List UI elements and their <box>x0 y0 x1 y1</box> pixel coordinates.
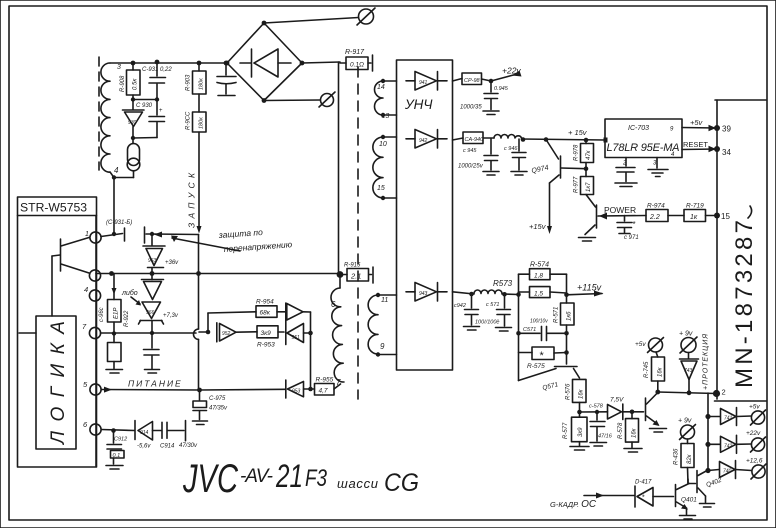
svg-text:47к: 47к <box>586 149 592 160</box>
svg-text:100/10v: 100/10v <box>530 319 548 325</box>
node <box>502 292 507 297</box>
wire output bus <box>707 393 709 471</box>
svg-text:-AV-: -AV- <box>240 466 273 487</box>
capacitor C-910 <box>217 65 236 96</box>
wire 115 rail <box>453 292 475 294</box>
IC STR-W5753 <box>18 197 97 467</box>
thyristor D-951 <box>277 303 311 345</box>
wire PITANIE row <box>102 379 200 393</box>
svg-text:С-975: С-975 <box>209 396 226 402</box>
svg-text:39: 39 <box>722 125 731 134</box>
svg-text:R-974: R-974 <box>647 203 665 210</box>
node <box>584 166 589 171</box>
svg-text:R-955: R-955 <box>316 377 334 384</box>
svg-text:*: * <box>633 220 636 229</box>
capacitor C-971 <box>617 216 639 242</box>
wire <box>133 99 157 101</box>
text G-KADR <box>550 493 634 511</box>
svg-text:R-577: R-577 <box>563 422 569 439</box>
zener D-743 <box>680 359 699 393</box>
node <box>131 61 136 66</box>
svg-text:R-977: R-977 <box>574 176 580 193</box>
svg-text:10: 10 <box>379 141 387 148</box>
node <box>516 292 521 297</box>
wire protection row <box>658 392 716 394</box>
svg-text:0,22: 0,22 <box>160 67 172 73</box>
transistor Q-POWER <box>579 205 647 241</box>
wire winding4 down <box>110 172 114 178</box>
diode D-417 <box>635 480 674 508</box>
capacitor C-912 <box>106 431 127 470</box>
svg-text:R-978: R-978 <box>574 144 580 161</box>
svg-text:G-КАДР. ОС: G-КАДР. ОС <box>550 499 597 510</box>
svg-text:3к9: 3к9 <box>578 427 584 437</box>
svg-text:+ 15v: + 15v <box>568 128 588 137</box>
diode D-952 <box>217 323 257 342</box>
title JVC chassis <box>182 457 419 501</box>
diode D-942 <box>406 130 447 149</box>
capacitor C-945b <box>458 139 499 176</box>
svg-text:+15v: +15v <box>529 222 547 231</box>
wire with arrow <box>152 232 199 273</box>
annotation libo <box>121 289 141 306</box>
node <box>469 292 474 297</box>
svg-text:R573: R573 <box>493 279 513 288</box>
zener D-578 <box>608 397 633 420</box>
svg-text:100//100ё: 100//100ё <box>475 320 499 326</box>
svg-text:1000/35: 1000/35 <box>460 105 482 111</box>
svg-text:+5v: +5v <box>635 341 646 348</box>
resistor R-903 <box>186 63 207 94</box>
node <box>196 271 201 276</box>
node pin39 <box>714 125 731 134</box>
transistor Q-402 <box>688 470 723 507</box>
wire bridge top to J1 <box>264 18 359 24</box>
svg-text:R-917: R-917 <box>345 49 365 56</box>
svg-text:ПИТАНИЕ: ПИТАНИЕ <box>128 379 183 389</box>
node <box>564 331 569 336</box>
terminal +9v upper <box>679 331 697 359</box>
resistor R-575 <box>519 347 569 370</box>
svg-text:C571: C571 <box>523 327 536 333</box>
svg-text:11: 11 <box>381 297 388 304</box>
diode D-742 <box>708 435 752 453</box>
terminal +5v out <box>749 404 766 426</box>
transformer primary winding 3-4 <box>101 63 121 175</box>
node bridge right <box>300 61 305 66</box>
inductor L-940 <box>494 135 522 139</box>
node <box>150 271 155 276</box>
zener D-930 <box>123 100 153 139</box>
node <box>705 442 710 447</box>
svg-text:742: 742 <box>724 443 733 449</box>
svg-text:R-578: R-578 <box>618 422 624 439</box>
resistor R-978 <box>574 140 594 163</box>
terminal +12v out <box>746 458 766 480</box>
diode D-953 <box>200 380 311 398</box>
svg-text:c 971: c 971 <box>624 235 639 241</box>
svg-text:C 930: C 930 <box>136 103 153 109</box>
wire bridge right to bus <box>302 62 340 63</box>
transistor internal <box>52 238 89 317</box>
svg-text:CA-940: CA-940 <box>465 137 485 143</box>
svg-text:68κ: 68κ <box>260 310 271 317</box>
resistor R-917 <box>340 49 373 71</box>
resistor R-911 <box>106 334 123 374</box>
resistor R-578 <box>618 412 642 452</box>
pin 1 <box>85 231 101 243</box>
wire main HV bus <box>338 62 340 273</box>
resistor R-577 <box>563 412 589 450</box>
svg-text:2.1: 2.1 <box>350 272 361 281</box>
node <box>155 97 159 101</box>
zener D-965 <box>142 276 164 300</box>
diode D-941 <box>406 72 447 91</box>
node <box>155 60 160 65</box>
svg-text:951: 951 <box>292 335 301 341</box>
svg-text:R-574: R-574 <box>530 262 549 269</box>
svg-text:180κ: 180κ <box>199 78 205 90</box>
svg-text:R-571: R-571 <box>554 307 560 323</box>
capacitor C-916 <box>144 333 160 373</box>
svg-text:RESET: RESET <box>683 140 708 149</box>
wire AC top rail <box>110 62 227 64</box>
svg-text:963: 963 <box>148 258 157 264</box>
wire +115v arrow <box>567 283 604 297</box>
transformer winding 10-15 <box>373 135 397 200</box>
svg-text:1000/25v: 1000/25v <box>458 164 484 170</box>
svg-text:POWER: POWER <box>604 205 636 215</box>
svg-text:ЗАПУСК: ЗАПУСК <box>187 172 197 228</box>
capacitor under pin2 <box>615 158 637 187</box>
transformer winding 6-7 <box>331 276 344 387</box>
IC-703 regulator <box>604 119 683 167</box>
annotation protection <box>171 227 293 254</box>
node <box>630 410 635 415</box>
svg-text:47/16: 47/16 <box>598 434 613 440</box>
wire reg loop right <box>550 274 567 295</box>
node <box>150 232 154 236</box>
svg-text:*: * <box>642 495 645 502</box>
svg-text:9: 9 <box>670 127 674 133</box>
node <box>337 271 344 278</box>
spark gap F-901 <box>114 138 140 178</box>
svg-text:6: 6 <box>83 420 88 429</box>
svg-text:+ПРОТЕКЦИЯ: +ПРОТЕКЦИЯ <box>703 334 710 390</box>
transistor Q-401 <box>676 484 698 520</box>
svg-text:R-576: R-576 <box>566 383 572 400</box>
capacitor C-942 <box>454 294 480 330</box>
resistor R-436 <box>674 444 695 484</box>
node <box>308 387 313 392</box>
svg-text:13: 13 <box>382 113 390 120</box>
wire RESET to pin34 <box>682 140 717 152</box>
resistor R-719 <box>684 203 717 222</box>
svg-text:1к7: 1к7 <box>586 182 592 192</box>
svg-text:741: 741 <box>724 416 733 422</box>
resistor R-915 <box>342 263 373 284</box>
svg-text:R-922: R-922 <box>124 310 130 327</box>
svg-text:C912: C912 <box>114 437 127 443</box>
node <box>112 175 116 179</box>
node <box>206 330 211 335</box>
svg-text:шасси: шасси <box>337 476 378 491</box>
node bridge bottom <box>262 98 267 103</box>
node <box>308 331 313 336</box>
pin 4 <box>84 285 101 301</box>
svg-text:942: 942 <box>419 138 428 144</box>
svg-text:1,8: 1,8 <box>534 273 543 280</box>
svg-text:2: 2 <box>722 388 726 397</box>
svg-text:c-96c: c-96c <box>99 307 105 322</box>
svg-text:c942: c942 <box>454 303 466 309</box>
svg-text:перенапряжению: перенапряжению <box>223 239 293 254</box>
fuse CP-98 <box>453 73 492 85</box>
logic box <box>36 316 76 449</box>
wire pin1 row <box>101 234 123 237</box>
resistor R-574b <box>530 287 551 298</box>
terminal J1 mains <box>357 8 375 25</box>
svg-text:JVC: JVC <box>182 457 239 501</box>
svg-text:ЛОГИКА: ЛОГИКА <box>48 321 69 446</box>
terminal +9v lower <box>678 418 696 444</box>
svg-text:47/30v: 47/30v <box>179 443 198 449</box>
transformer winding 14-13 <box>375 79 397 120</box>
svg-text:34: 34 <box>722 148 731 157</box>
svg-text:+115v: +115v <box>577 283 602 293</box>
capacitor C-945 <box>460 81 509 115</box>
IC UNCH block <box>397 60 453 370</box>
node <box>564 293 569 298</box>
fuse CA-940 <box>453 132 495 144</box>
svg-text:930: 930 <box>128 120 137 126</box>
capacitor C-931-B <box>106 220 152 243</box>
svg-text:+5v: +5v <box>690 118 704 127</box>
svg-text:914: 914 <box>140 430 149 436</box>
svg-text:Е1Р: Е1Р <box>114 308 120 319</box>
pin 7 <box>82 322 101 339</box>
wire bridge bottom to J2 <box>264 99 320 102</box>
svg-text:14: 14 <box>377 84 385 91</box>
node <box>112 232 116 236</box>
resistor R-576 <box>566 379 587 412</box>
pin 5 <box>83 380 101 395</box>
svg-text:c 946: c 946 <box>504 146 518 152</box>
node <box>595 410 599 414</box>
node <box>687 390 692 395</box>
wire drain thick row <box>96 273 339 275</box>
svg-text:+5v: +5v <box>749 404 760 411</box>
svg-text:0.945: 0.945 <box>494 86 509 92</box>
node <box>111 428 116 433</box>
svg-text:3к9: 3к9 <box>261 330 272 337</box>
resistor R-955a <box>311 377 341 396</box>
svg-text:16к: 16к <box>658 366 664 377</box>
svg-text:2.2: 2.2 <box>649 214 660 221</box>
svg-text:R-908: R-908 <box>120 75 126 92</box>
node <box>197 61 202 66</box>
svg-text:+7,3v: +7,3v <box>163 313 179 319</box>
wire <box>19 332 36 334</box>
wire <box>310 312 312 389</box>
svg-text:21: 21 <box>275 458 303 494</box>
svg-text:c-578: c-578 <box>589 404 604 410</box>
inductor R573 <box>474 279 519 295</box>
node <box>705 468 710 473</box>
svg-text:CG: CG <box>384 469 419 497</box>
svg-text:47/35v: 47/35v <box>209 406 228 412</box>
transistor Q-974 <box>529 140 586 235</box>
wire ZAPUSK <box>187 132 202 234</box>
node <box>577 410 582 415</box>
svg-text:R-903: R-903 <box>186 74 192 91</box>
terminal +5v <box>635 338 664 353</box>
capacitor C-914 <box>160 421 198 450</box>
capacitor C-571a <box>475 294 512 331</box>
svg-text:4,7: 4,7 <box>319 388 328 395</box>
svg-text:15: 15 <box>721 212 730 221</box>
wire <box>580 411 608 413</box>
svg-text:F3: F3 <box>305 465 328 492</box>
svg-text:либо: либо <box>121 289 138 297</box>
capacitor C-578 <box>589 404 613 447</box>
node <box>521 137 526 142</box>
capacitor C-571 <box>519 319 567 341</box>
svg-text:c 945: c 945 <box>463 148 477 154</box>
node <box>655 390 660 395</box>
resistor R-974 <box>646 203 684 222</box>
svg-text:743: 743 <box>684 368 693 374</box>
svg-text:+ 9v: + 9v <box>679 331 693 338</box>
svg-text:1: 1 <box>85 231 89 238</box>
svg-text:966: 966 <box>146 310 155 316</box>
terminal J2 mains <box>319 92 335 107</box>
node <box>131 136 135 140</box>
svg-text:защита по: защита по <box>217 227 263 240</box>
transistor Q-951 <box>194 274 209 390</box>
svg-text:R-719: R-719 <box>686 203 704 210</box>
node <box>224 61 229 66</box>
svg-text:C-931: C-931 <box>142 67 158 73</box>
svg-text:6: 6 <box>331 300 336 309</box>
IC MN-1873287 <box>715 100 767 401</box>
diode D-741 <box>708 408 752 426</box>
svg-text:+36v: +36v <box>165 260 179 266</box>
capacitor C-946 <box>504 139 527 175</box>
svg-text:Q402: Q402 <box>705 477 723 489</box>
svg-text:R-436: R-436 <box>674 448 680 465</box>
node <box>705 414 710 419</box>
svg-text:180κ: 180κ <box>199 117 205 129</box>
svg-text:УНЧ: УНЧ <box>404 97 433 112</box>
svg-text:5: 5 <box>83 380 88 389</box>
svg-text:Q571: Q571 <box>542 381 559 392</box>
transformer core right dashed <box>357 67 359 399</box>
svg-text:c 571: c 571 <box>486 302 499 308</box>
resistor R-571 <box>554 295 575 353</box>
svg-text:9: 9 <box>380 342 385 351</box>
wire reg loop left <box>519 274 530 380</box>
node pin34 <box>714 146 731 157</box>
transformer winding 11-9 <box>368 293 396 357</box>
svg-text:(С-931-Б): (С-931-Б) <box>106 220 132 226</box>
svg-text:16к: 16к <box>632 427 638 438</box>
svg-text:15: 15 <box>377 185 385 192</box>
node <box>131 97 135 101</box>
terminal +22v out <box>746 430 766 452</box>
ground under pin3 <box>648 158 668 177</box>
wire +22v <box>491 66 522 82</box>
svg-text:0.5κ: 0.5κ <box>133 78 139 90</box>
wire feedback loop <box>208 312 256 332</box>
resistor R-977 <box>574 163 596 208</box>
wire +15 rail <box>522 139 605 140</box>
resistor R-ACC <box>186 94 207 132</box>
wire pin7 row <box>101 332 197 334</box>
wire pin6 row <box>102 430 135 431</box>
svg-text:941: 941 <box>419 80 428 86</box>
node <box>489 79 494 84</box>
node <box>109 271 114 276</box>
capacitor C-932 <box>133 100 165 139</box>
svg-text:STR-W5753: STR-W5753 <box>20 201 87 215</box>
wire +5v to pin39 <box>682 118 717 131</box>
svg-text:4: 4 <box>84 285 88 294</box>
svg-text:1к: 1к <box>690 214 698 221</box>
svg-text:R-575: R-575 <box>527 363 545 370</box>
diode D-740 <box>708 461 752 479</box>
svg-text:+ 9v: + 9v <box>678 418 692 425</box>
svg-text:82к: 82к <box>687 453 693 464</box>
resistor R-745 <box>644 352 665 392</box>
resistor R-953 <box>257 326 284 349</box>
node <box>544 137 549 142</box>
svg-text:R-9CC: R-9CC <box>186 111 192 130</box>
node pin2 <box>713 388 726 398</box>
svg-text:R-745: R-745 <box>644 361 650 378</box>
zener D-966 <box>139 302 179 333</box>
svg-text:L78LR 95E-MA: L78LR 95E-MA <box>607 142 680 154</box>
svg-text:*: * <box>540 350 545 362</box>
wire pin bus <box>95 216 97 466</box>
svg-text:7: 7 <box>82 322 87 331</box>
bridge rectifier D-901 <box>227 23 302 101</box>
svg-text:D-417: D-417 <box>635 480 652 486</box>
svg-text:7,5V: 7,5V <box>610 397 624 404</box>
node <box>150 331 154 335</box>
resistor R-954 <box>256 299 277 318</box>
svg-text:3: 3 <box>117 64 121 71</box>
svg-text:R-954: R-954 <box>256 299 274 306</box>
svg-text:1к6: 1к6 <box>567 311 573 321</box>
node <box>584 138 589 143</box>
svg-text:4: 4 <box>114 166 119 175</box>
svg-text:1,5: 1,5 <box>534 291 543 298</box>
resistor R-908 <box>120 63 140 100</box>
svg-text:Q974: Q974 <box>531 165 549 175</box>
diode D-943 <box>406 283 447 302</box>
svg-text:+12,6: +12,6 <box>746 458 763 465</box>
resistor R-574 <box>530 262 551 280</box>
zener D-963 <box>143 234 179 272</box>
svg-text:Q401: Q401 <box>681 497 697 504</box>
svg-text:7: 7 <box>336 378 341 387</box>
svg-text:-5,6v: -5,6v <box>137 444 151 450</box>
node bridge left <box>225 61 230 66</box>
svg-text:740: 740 <box>723 469 732 475</box>
resistor E1P <box>99 274 130 334</box>
svg-text:MN-1873287: MN-1873287 <box>731 220 758 388</box>
